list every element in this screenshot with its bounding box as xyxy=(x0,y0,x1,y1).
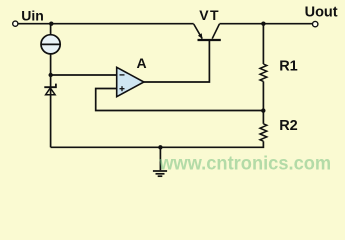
svg-text:Uout: Uout xyxy=(305,5,338,21)
svg-text:VT: VT xyxy=(199,7,220,23)
svg-text:R1: R1 xyxy=(279,58,298,74)
svg-text:A: A xyxy=(137,55,147,71)
svg-text:R2: R2 xyxy=(279,118,298,134)
svg-text:www.cntronics.com: www.cntronics.com xyxy=(158,154,331,175)
svg-text:Uin: Uin xyxy=(21,8,44,24)
